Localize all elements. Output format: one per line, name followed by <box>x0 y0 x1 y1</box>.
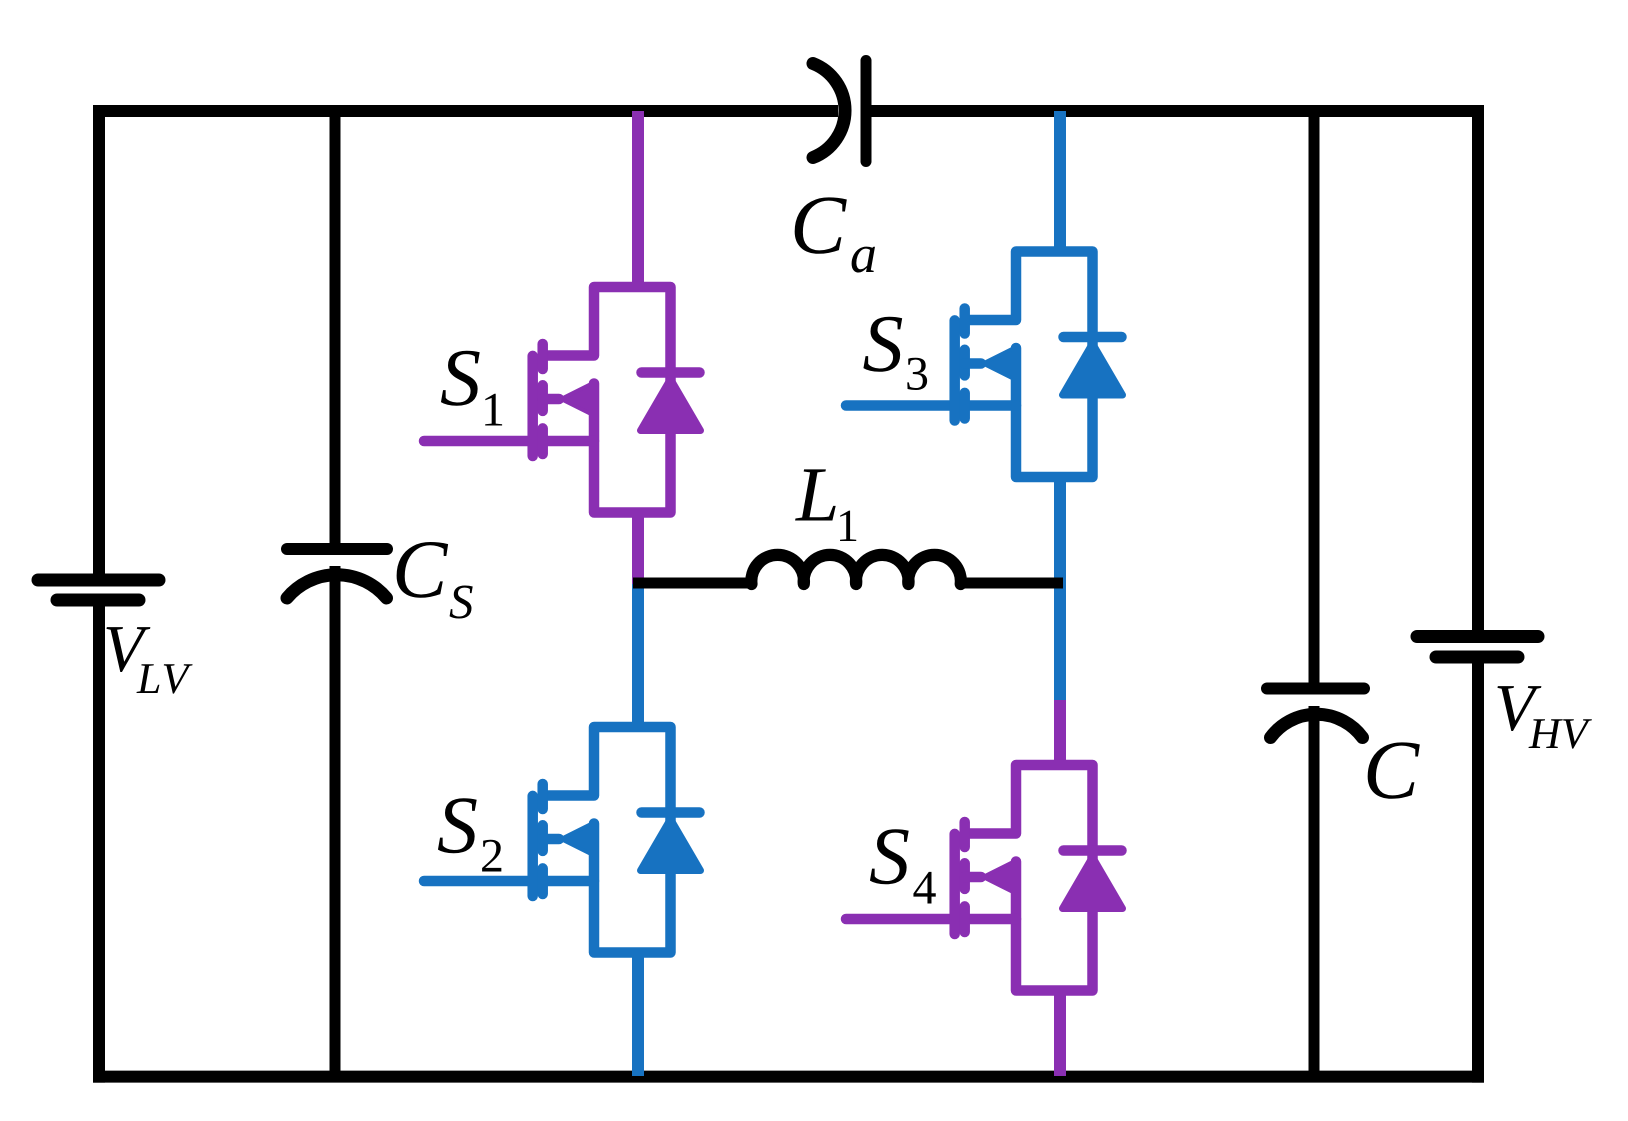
label Ca <box>795 197 875 272</box>
wire left rail upper <box>93 105 105 580</box>
label S4 <box>870 829 936 903</box>
wire top bus right segment <box>866 105 1484 117</box>
capacitor C <box>1267 689 1364 738</box>
wire right rail lower <box>1472 657 1484 1083</box>
battery VHV <box>1417 637 1538 658</box>
wire C branch top <box>1309 111 1320 685</box>
label VLV <box>107 627 193 694</box>
wire S1 drain from top bus (purple) <box>632 111 644 288</box>
transistor S4 (MOSFET with body diode) <box>846 765 1123 991</box>
wire S3 source to node B (blue) <box>1054 477 1066 700</box>
wire inductor to node B (black) <box>958 578 1063 589</box>
wire S3 drain from top bus (blue) <box>1054 111 1066 252</box>
label Cs <box>397 542 473 618</box>
wire C branch bottom <box>1309 706 1320 1076</box>
wire Cs branch bottom <box>330 566 341 1076</box>
wire S4 source to bottom bus (purple) <box>1054 990 1066 1076</box>
label S2 <box>438 798 501 871</box>
label L1 <box>795 469 856 541</box>
capacitor Cs <box>287 549 387 598</box>
wire top bus left segment <box>93 105 838 117</box>
wire Cs branch top <box>330 111 341 543</box>
label S3 <box>863 317 927 390</box>
wire S2 source to bottom bus (blue) <box>632 952 644 1076</box>
wire right rail upper <box>1472 105 1484 637</box>
wire node A to S2 drain (blue) <box>632 584 644 728</box>
label S1 <box>441 351 502 426</box>
wire node B to S4 drain (purple) <box>1054 700 1066 765</box>
wire bottom bus <box>93 1071 1484 1083</box>
battery VLV <box>38 580 159 600</box>
wire left rail lower <box>93 600 105 1083</box>
label VHV <box>1498 686 1592 749</box>
wire node A to inductor (black) <box>633 578 754 589</box>
label C <box>1368 742 1420 798</box>
inductor L1 <box>751 555 961 584</box>
transistor S2 (MOSFET with body diode) <box>424 727 701 953</box>
capacitor Ca <box>813 61 866 162</box>
wire S1 source to node A (purple) <box>632 513 644 585</box>
transistor S3 (MOSFET with body diode) <box>846 252 1123 478</box>
transistor S1 (MOSFET with body diode) <box>424 287 701 513</box>
